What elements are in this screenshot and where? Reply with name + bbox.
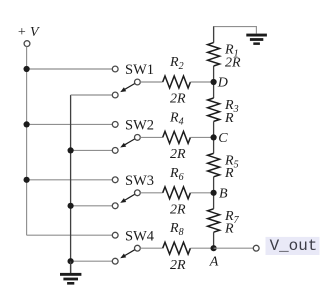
wire R2 to ladder node <box>190 81 213 83</box>
svg-text:SW3: SW3 <box>125 173 154 189</box>
wire SW4 pole to R8 <box>140 247 162 249</box>
ground symbol top right <box>246 34 267 45</box>
wire SW3 pole to R6 <box>140 192 162 194</box>
switch SW1 <box>112 62 154 98</box>
svg-text:2R: 2R <box>170 147 186 162</box>
resistor R7 R <box>208 193 240 248</box>
junction dot ground rail / SW2 <box>68 147 74 153</box>
resistor R8 2R <box>163 221 191 273</box>
svg-text:R2: R2 <box>169 55 184 72</box>
svg-text:2R: 2R <box>170 203 186 218</box>
wire SW2 pole to R4 <box>140 136 162 138</box>
wire ladder top to ground <box>214 27 257 43</box>
ground symbol bottom <box>60 261 81 284</box>
resistor R2 2R <box>163 55 191 107</box>
switch SW2 <box>112 118 154 154</box>
node C <box>211 131 229 146</box>
svg-text:A: A <box>209 254 219 269</box>
svg-text:+ V: + V <box>17 25 40 40</box>
svg-text:B: B <box>219 187 228 202</box>
wire +V feed to SW4 top contact <box>27 234 113 236</box>
svg-text:2R: 2R <box>225 55 241 70</box>
wire ground rail vertical <box>70 95 72 273</box>
svg-text:SW4: SW4 <box>125 228 155 244</box>
wire node A to V_out terminal <box>214 247 254 249</box>
+V supply terminal <box>17 25 40 47</box>
svg-text:V_out: V_out <box>270 237 318 255</box>
node D <box>211 76 228 91</box>
wire SW3 lower contact to ground rail <box>71 205 113 207</box>
svg-text:D: D <box>217 76 228 91</box>
resistor R1 2R <box>208 27 241 82</box>
wire SW1 pole to R2 <box>140 81 162 83</box>
svg-text:SW2: SW2 <box>125 118 154 134</box>
resistor R4 2R <box>163 110 191 162</box>
wire SW1 lower contact to ground rail <box>71 94 113 96</box>
junction dot +V rail / SW2 feed <box>24 121 30 127</box>
svg-text:R: R <box>224 111 234 126</box>
junction dot +V rail / SW3 feed <box>24 177 30 183</box>
switch SW4 <box>112 228 154 264</box>
junction dot ground rail / SW4 <box>68 258 74 264</box>
svg-text:2R: 2R <box>170 258 186 273</box>
wire SW2 lower contact to ground rail <box>71 149 113 151</box>
wire +V rail vertical <box>26 47 28 236</box>
svg-text:SW1: SW1 <box>125 62 154 78</box>
svg-text:C: C <box>218 131 228 146</box>
svg-text:2R: 2R <box>170 92 186 107</box>
switch SW3 <box>112 173 154 209</box>
node A <box>209 245 219 269</box>
wire SW4 lower contact to ground rail <box>71 260 113 262</box>
svg-text:R8: R8 <box>169 221 184 238</box>
wire +V feed to SW1 top contact <box>27 68 113 70</box>
wire R8 to ladder node <box>190 247 213 249</box>
resistor R5 R <box>208 137 239 192</box>
net label V_out <box>266 237 320 255</box>
V_out terminal <box>253 245 259 251</box>
wire R4 to ladder node <box>190 136 213 138</box>
junction dot +V rail / SW1 feed <box>24 66 30 72</box>
svg-text:R: R <box>224 166 234 181</box>
junction dot ground rail / SW3 <box>68 203 74 209</box>
wire +V feed to SW3 top contact <box>27 179 113 181</box>
resistor R6 2R <box>163 166 191 218</box>
svg-text:R: R <box>224 222 234 237</box>
svg-text:R4: R4 <box>169 110 184 127</box>
wire +V feed to SW2 top contact <box>27 123 113 125</box>
svg-text:R6: R6 <box>169 166 184 183</box>
wire R6 to ladder node <box>190 192 213 194</box>
node B <box>211 187 229 202</box>
resistor R3 R <box>208 82 239 137</box>
